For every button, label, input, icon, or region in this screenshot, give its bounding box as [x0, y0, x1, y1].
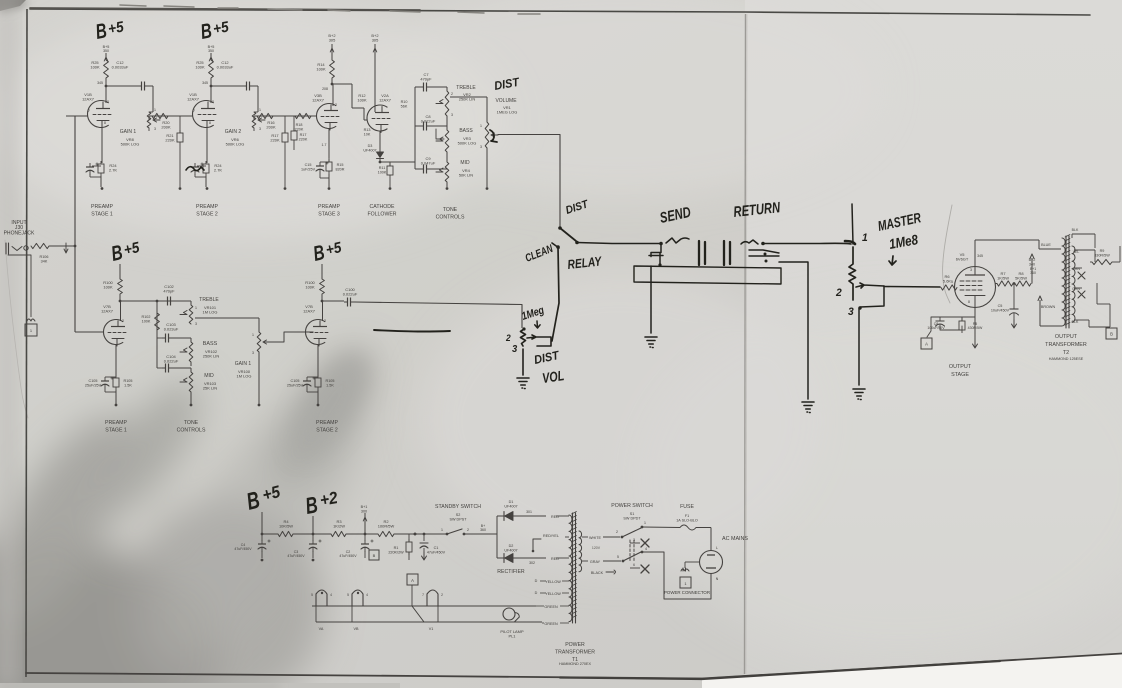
wire CF output to tone stack — [397, 161, 415, 163]
output tube cathode drop — [974, 308, 976, 341]
wire relay to send jack — [577, 243, 659, 244]
heater tube V1 — [427, 590, 438, 606]
plate wire lower stage1 to tone — [120, 300, 191, 302]
svg-text:1: 1 — [259, 108, 261, 112]
wire fuse to mains — [696, 527, 711, 529]
svg-text:2: 2 — [451, 92, 453, 96]
page fold crease — [745, 14, 746, 674]
cathode RC network output — [931, 316, 975, 318]
svg-text:RED/YEL: RED/YEL — [543, 534, 559, 538]
power switch contact 3 X — [630, 542, 640, 544]
svg-text:R17: R17 — [300, 133, 307, 137]
grid wire lower stage 2 — [298, 331, 314, 333]
slope resistor R10 — [414, 100, 416, 112]
border bottom line — [26, 654, 1122, 679]
OT secondary winding — [1072, 246, 1075, 322]
svg-text:UF4007: UF4007 — [504, 504, 517, 508]
svg-text:OUTPUT: OUTPUT — [1055, 334, 1078, 340]
svg-text:MID: MID — [204, 373, 214, 379]
handwritten squiggle — [186, 167, 204, 171]
svg-text:12AX7: 12AX7 — [187, 97, 199, 102]
wire master wiper to output grid — [884, 286, 940, 289]
plate supply wire stage 2 — [210, 53, 212, 60]
relay enclosure box (hand-drawn) — [634, 266, 781, 284]
svg-text:47uF/450V: 47uF/450V — [427, 550, 446, 554]
input wire to lower preamp grid — [75, 331, 104, 333]
return ground symbol — [802, 402, 814, 413]
cathode bypass cap stage 2 — [197, 165, 206, 167]
svg-text:5: 5 — [951, 280, 953, 284]
speaker jack box B — [1109, 304, 1111, 327]
svg-text:TRANSFORMER: TRANSFORMER — [1045, 342, 1087, 348]
filter cap C2 — [364, 534, 366, 541]
svg-text:D: D — [535, 579, 538, 583]
pilot lamp — [503, 608, 515, 620]
svg-text:360: 360 — [480, 528, 486, 532]
CF output node — [379, 158, 381, 162]
svg-text:305: 305 — [329, 37, 336, 42]
heater bus lower — [316, 621, 542, 623]
svg-text:R18: R18 — [296, 123, 303, 127]
cathode resistor R15 stage 3 — [328, 158, 330, 162]
svg-text:100K: 100K — [103, 285, 113, 290]
cathode bypass cap stage 1 — [92, 165, 101, 167]
left feed wire into stage 3 — [290, 115, 294, 117]
top-left corner dark wedge — [0, 0, 26, 11]
cathode RC lower stage 2 — [317, 345, 319, 378]
PT lead GRAY — [582, 560, 588, 562]
svg-text:BLACK: BLACK — [591, 571, 604, 575]
svg-text:25uF/25V: 25uF/25V — [85, 383, 102, 387]
cathode wire stage 1 — [101, 128, 103, 164]
svg-text:A: A — [925, 342, 928, 347]
volume pot VR1 — [485, 122, 489, 148]
svg-text:4: 4 — [330, 593, 332, 597]
svg-text:CONTROLS: CONTROLS — [436, 215, 465, 221]
plate supply wire stage 3 — [331, 44, 333, 60]
svg-text:BLK: BLK — [1072, 228, 1079, 232]
svg-text:FOLLOWER: FOLLOWER — [367, 212, 396, 218]
svg-text:50K LIN: 50K LIN — [459, 173, 473, 178]
svg-text:5K/5W: 5K/5W — [1015, 276, 1027, 281]
svg-text:3: 3 — [154, 127, 156, 131]
filter cap C1 — [423, 534, 425, 541]
grid reference arrow — [64, 243, 68, 253]
plate resistor lower stage 1 — [118, 279, 123, 294]
svg-text:1: 1 — [154, 108, 156, 112]
lower tone network riser — [156, 301, 158, 368]
svg-text:2: 2 — [324, 319, 326, 323]
svg-text:1.5K: 1.5K — [326, 383, 334, 387]
svg-text:0.023uF: 0.023uF — [164, 327, 179, 332]
bass-mid jog wire — [436, 129, 444, 139]
svg-text:3: 3 — [252, 351, 254, 355]
wire volume to relay — [498, 135, 560, 227]
svg-text:B: B — [373, 553, 376, 558]
svg-text:820R: 820R — [336, 167, 345, 171]
svg-text:RECTIFIER: RECTIFIER — [497, 569, 525, 575]
output tube grids (dashes) — [960, 281, 982, 290]
svg-text:1: 1 — [480, 124, 482, 128]
wire plate to OT primary — [1038, 240, 1040, 249]
PT lead WHITE — [582, 536, 588, 538]
svg-text:R105: R105 — [326, 379, 335, 383]
paper bottom edge — [702, 653, 1122, 688]
wire plate to CF grid — [351, 84, 353, 108]
relay wire down to dist vol — [552, 247, 559, 341]
master pin3 loop — [860, 286, 884, 307]
svg-text:TONE: TONE — [443, 207, 458, 213]
svg-text:TREBLE: TREBLE — [456, 85, 476, 91]
svg-text:SW DPDT: SW DPDT — [623, 516, 641, 520]
plate node lower stage 1 — [119, 300, 122, 303]
svg-text:GREEN: GREEN — [544, 622, 558, 626]
svg-text:C1: C1 — [434, 546, 439, 550]
master ground drop — [858, 308, 860, 385]
svg-text:5: 5 — [347, 593, 349, 597]
mains return loop — [642, 552, 711, 599]
input riser wire to top row grid — [74, 116, 76, 332]
svg-text:YELLOW: YELLOW — [545, 592, 561, 596]
interstage grid resistors stage2-3 — [253, 116, 255, 120]
heater bus upper — [312, 605, 536, 607]
main B+ rail — [262, 533, 278, 535]
svg-text:R102: R102 — [142, 315, 151, 319]
svg-text:1: 1 — [441, 528, 443, 532]
svg-text:TREBLE: TREBLE — [199, 297, 219, 303]
left edge shading — [0, 0, 14, 688]
power switch pole 2 — [622, 560, 625, 563]
svg-text:R1: R1 — [394, 546, 399, 550]
lower mid pot VR103 — [189, 372, 193, 392]
plate resistor stage 2 — [209, 60, 214, 78]
svg-text:345: 345 — [202, 81, 208, 85]
top edge smudge marks — [120, 5, 540, 14]
svg-text:47uF/450V: 47uF/450V — [339, 554, 357, 558]
treble to volume wire — [450, 96, 487, 98]
cathode resistor R5 output — [959, 321, 965, 330]
gain pot stage 1 — [147, 112, 151, 128]
svg-text:2: 2 — [335, 103, 337, 107]
wire to gain pot stage 1 — [152, 86, 154, 112]
filter cap C3 — [312, 534, 314, 541]
svg-text:250K LIN: 250K LIN — [203, 354, 220, 359]
B+1 rail stub — [364, 513, 366, 534]
cathode RC lower stage 1 — [115, 345, 117, 378]
svg-text:R11: R11 — [379, 166, 386, 170]
svg-text:0.022uF: 0.022uF — [164, 359, 179, 364]
svg-text:T2: T2 — [1063, 350, 1069, 356]
input jack sleeve to chassis — [30, 255, 32, 317]
cathode wire stage 2 — [206, 128, 208, 164]
power transformer primary winding — [569, 515, 572, 622]
plate resistor lower stage 2 — [320, 279, 325, 294]
coupling capacitor stage 1 — [138, 85, 142, 87]
svg-text:PL1: PL1 — [508, 634, 515, 639]
svg-text:360: 360 — [1030, 271, 1036, 275]
svg-text:2: 2 — [122, 319, 124, 323]
wire return to master — [763, 242, 851, 245]
svg-text:VOL: VOL — [541, 367, 565, 386]
svg-text:12AX7: 12AX7 — [303, 309, 315, 314]
PT lead RED/YEL — [565, 536, 569, 538]
mains ground pigtail — [685, 561, 700, 563]
svg-text:120V: 120V — [592, 546, 601, 550]
svg-text:2: 2 — [212, 100, 214, 104]
svg-text:MID: MID — [460, 160, 470, 166]
svg-text:S2: S2 — [456, 513, 461, 517]
slanted heater wire — [412, 606, 424, 622]
handwritten wire overdraw — [374, 330, 450, 332]
svg-text:7: 7 — [422, 593, 424, 597]
B+2 arrow at screen — [1031, 258, 1033, 284]
svg-text:3: 3 — [970, 268, 972, 272]
plate node lower stage 2 — [321, 300, 324, 303]
crease curve right page — [943, 205, 952, 303]
svg-text:47uF/450V: 47uF/450V — [234, 547, 252, 551]
svg-text:C105: C105 — [291, 379, 300, 383]
svg-text:HAMMOND 270EX: HAMMOND 270EX — [559, 662, 591, 666]
output tube plate — [965, 274, 985, 276]
svg-text:R105: R105 — [124, 379, 133, 383]
svg-text:220K/2W: 220K/2W — [388, 550, 404, 554]
svg-text:2: 2 — [467, 528, 469, 532]
dist vol wiper loop — [527, 335, 551, 346]
plate node wire stage 1 — [105, 85, 108, 88]
interstage grid resistors R20 R21 — [148, 116, 150, 120]
chassis box A (heater) — [407, 574, 418, 585]
svg-text:UF4007: UF4007 — [363, 148, 376, 152]
svg-text:STAGE 3: STAGE 3 — [318, 212, 340, 218]
svg-text:2: 2 — [505, 333, 511, 343]
master ground symbol — [853, 389, 865, 400]
svg-text:BLUE: BLUE — [1041, 243, 1051, 247]
wire to feedback tap A — [927, 317, 931, 337]
heater tube VA — [316, 590, 327, 606]
svg-text:6V6GT: 6V6GT — [956, 257, 969, 262]
grid shunt resistor stage 3 — [293, 116, 295, 131]
svg-text:2: 2 — [835, 287, 842, 299]
svg-text:1: 1 — [684, 581, 686, 586]
cathode resistor stage 1 — [98, 164, 104, 173]
svg-text:3: 3 — [480, 145, 482, 149]
svg-text:D2: D2 — [509, 544, 514, 548]
grid wire stage 2 — [171, 115, 193, 117]
svg-text:100K: 100K — [90, 65, 100, 70]
svg-text:STAGE 1: STAGE 1 — [105, 428, 127, 434]
svg-text:B: B — [1110, 332, 1113, 337]
svg-text:AC MAINS: AC MAINS — [722, 536, 748, 542]
svg-text:F1: F1 — [685, 514, 689, 518]
fuse symbol — [680, 525, 696, 530]
supply wire lower stage 2 — [321, 264, 323, 279]
coupling capacitor stage 2 — [243, 85, 247, 87]
svg-text:2: 2 — [107, 100, 109, 104]
svg-text:3: 3 — [195, 322, 197, 326]
svg-text:470pF: 470pF — [420, 77, 432, 82]
cathode ground stage 1 — [100, 176, 102, 187]
svg-text:500K LOG: 500K LOG — [226, 142, 245, 147]
send sleeve ground drop — [650, 266, 652, 333]
triode V2A cathode follower — [374, 105, 376, 112]
svg-text:8: 8 — [968, 300, 970, 304]
plate resistor R14 stage 3 — [330, 60, 335, 78]
svg-text:3: 3 — [451, 113, 453, 117]
svg-text:STANDBY SWITCH: STANDBY SWITCH — [435, 504, 481, 510]
svg-text:OUTPUT: OUTPUT — [949, 364, 972, 370]
svg-text:25K LIN: 25K LIN — [203, 386, 217, 391]
svg-text:CONTROLS: CONTROLS — [177, 428, 206, 434]
svg-text:V1: V1 — [429, 627, 434, 631]
svg-text:R10: R10 — [401, 100, 408, 104]
svg-text:302: 302 — [529, 561, 535, 565]
power transformer core — [573, 513, 576, 623]
return sleeve drop wire — [779, 262, 808, 399]
svg-text:100K: 100K — [142, 319, 151, 323]
screen resistor R7 — [996, 283, 998, 285]
svg-text:PREAMP: PREAMP — [91, 204, 113, 210]
svg-text:2: 2 — [616, 530, 618, 534]
svg-text:500K LOG: 500K LOG — [121, 142, 140, 147]
svg-text:BASS: BASS — [459, 128, 473, 134]
chassis box B (power) — [369, 550, 379, 560]
svg-text:220K: 220K — [299, 137, 308, 141]
CF grid wire — [352, 107, 364, 109]
svg-text:1: 1 — [862, 232, 868, 244]
wire switch to fuse — [642, 526, 680, 529]
svg-text:220K: 220K — [270, 138, 280, 143]
svg-text:3: 3 — [848, 306, 854, 318]
svg-text:3: 3 — [512, 344, 518, 355]
svg-text:POWER SWITCH: POWER SWITCH — [611, 503, 653, 509]
cathode stage 3 — [328, 129, 330, 159]
svg-text:1M LOG: 1M LOG — [203, 310, 218, 315]
long wire to dist vol pot — [355, 302, 523, 305]
bass pot VR3 — [445, 130, 449, 152]
gain1 pot VR100 (lower) — [257, 332, 261, 352]
svg-text:8: 8 — [104, 121, 106, 125]
svg-text:2.7K: 2.7K — [214, 168, 222, 173]
mid pot VR4 — [445, 162, 449, 182]
CF cathode resistor R13 — [379, 131, 381, 137]
svg-text:PREAMP: PREAMP — [196, 204, 218, 210]
OT core — [1066, 236, 1069, 328]
power switch contact 6 X — [630, 567, 640, 569]
svg-text:FUSE: FUSE — [680, 504, 694, 510]
PT lead RED bottom — [556, 557, 569, 559]
svg-text:1uF/25V: 1uF/25V — [301, 167, 316, 171]
svg-text:5: 5 — [617, 555, 619, 559]
grid wire stage 3 with resistors — [294, 115, 317, 117]
svg-text:100K: 100K — [195, 65, 205, 70]
wire to gain pot stage 2 — [257, 86, 259, 112]
dist vol pot (hand-drawn) — [522, 327, 525, 330]
input wire — [49, 245, 75, 247]
plate top wire — [974, 240, 976, 267]
svg-text:350: 350 — [103, 49, 109, 53]
plate node wire stage 2 — [210, 85, 213, 88]
treble wiper to gain1 wire — [195, 317, 259, 319]
svg-text:470pF: 470pF — [163, 289, 175, 294]
svg-text:2: 2 — [441, 593, 443, 597]
svg-text:R9: R9 — [1100, 249, 1105, 253]
input resistor R106 — [31, 243, 49, 248]
svg-text:10K/5W: 10K/5W — [279, 524, 293, 529]
send jack — [659, 242, 663, 246]
svg-text:POWER: POWER — [565, 642, 585, 648]
svg-text:0.022uF: 0.022uF — [343, 292, 358, 297]
input jack — [6, 243, 9, 254]
OT primary winding — [1062, 238, 1065, 326]
power transformer secondary winding — [579, 531, 582, 572]
svg-text:D3: D3 — [368, 144, 373, 148]
svg-text:WHITE: WHITE — [589, 536, 602, 540]
send ground symbol — [645, 337, 657, 348]
svg-text:2.7K: 2.7K — [109, 168, 117, 173]
svg-text:PREAMP: PREAMP — [316, 420, 338, 426]
svg-text:12AX7: 12AX7 — [379, 98, 391, 103]
svg-text:100K: 100K — [316, 67, 326, 72]
relay switch — [558, 226, 562, 230]
svg-text:D: D — [535, 591, 538, 595]
hand shadow lower-left — [0, 335, 401, 688]
svg-text:1K/5W: 1K/5W — [997, 276, 1009, 281]
svg-text:POWER CONNECTOR: POWER CONNECTOR — [664, 590, 710, 595]
R102 resistor — [155, 313, 160, 330]
svg-text:C105: C105 — [89, 379, 98, 383]
svg-text:47uF/450V: 47uF/450V — [287, 554, 305, 558]
svg-text:100K: 100K — [357, 98, 367, 103]
svg-text:1.7: 1.7 — [322, 143, 327, 147]
svg-text:N: N — [716, 577, 719, 581]
svg-text:GAIN 1: GAIN 1 — [120, 129, 137, 135]
svg-text:B+2: B+2 — [1029, 258, 1036, 262]
svg-text:500K LOG: 500K LOG — [458, 141, 477, 146]
svg-text:BROWN: BROWN — [1041, 305, 1056, 309]
svg-text:12AX7: 12AX7 — [82, 97, 94, 102]
svg-text:345: 345 — [977, 254, 983, 258]
svg-text:56K: 56K — [401, 104, 408, 108]
svg-text:SW DPST: SW DPST — [449, 517, 467, 521]
svg-text:1MEG LOG: 1MEG LOG — [497, 110, 518, 115]
plate supply wire stage 1 — [105, 53, 107, 60]
send jack sleeve — [649, 244, 663, 265]
svg-text:GAIN 2: GAIN 2 — [225, 129, 242, 135]
paper corner curl lower-left — [5, 240, 28, 418]
svg-text:100K: 100K — [305, 285, 315, 290]
border top line — [30, 9, 1090, 15]
svg-text:7: 7 — [88, 109, 90, 113]
CF load resistor R11 — [389, 162, 391, 166]
svg-text:1: 1 — [252, 333, 254, 337]
master pot upstroke — [852, 204, 853, 244]
svg-text:220K: 220K — [165, 138, 175, 143]
OT primary bottom lead BROWN — [1040, 325, 1062, 327]
svg-text:200K: 200K — [266, 125, 276, 130]
switch gang dashed link — [630, 540, 634, 562]
svg-text:S1: S1 — [630, 512, 635, 516]
svg-text:CATHODE: CATHODE — [370, 204, 396, 210]
svg-text:350: 350 — [208, 49, 214, 53]
svg-text:BASS: BASS — [203, 341, 218, 347]
heater tube VB — [352, 590, 363, 606]
B+5 rail stub — [261, 512, 263, 534]
svg-text:VOLUME: VOLUME — [495, 98, 517, 104]
svg-text:340: 340 — [1029, 262, 1035, 266]
svg-text:STAGE 2: STAGE 2 — [316, 428, 338, 434]
svg-text:345: 345 — [97, 81, 103, 85]
chassis box 1 (mains) — [680, 577, 691, 588]
